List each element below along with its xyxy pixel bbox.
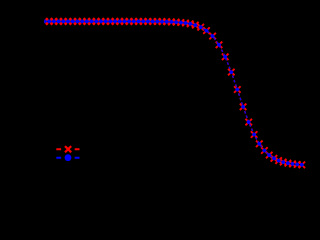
- legend entry 1: red dashed with x: [56, 146, 79, 152]
- red dashed line: [45, 21, 302, 164]
- blue circle markers: [43, 20, 304, 167]
- red x markers: [41, 18, 305, 168]
- legend entry 2: blue dashed with circle: [56, 154, 79, 161]
- blue dashed line: [45, 21, 302, 164]
